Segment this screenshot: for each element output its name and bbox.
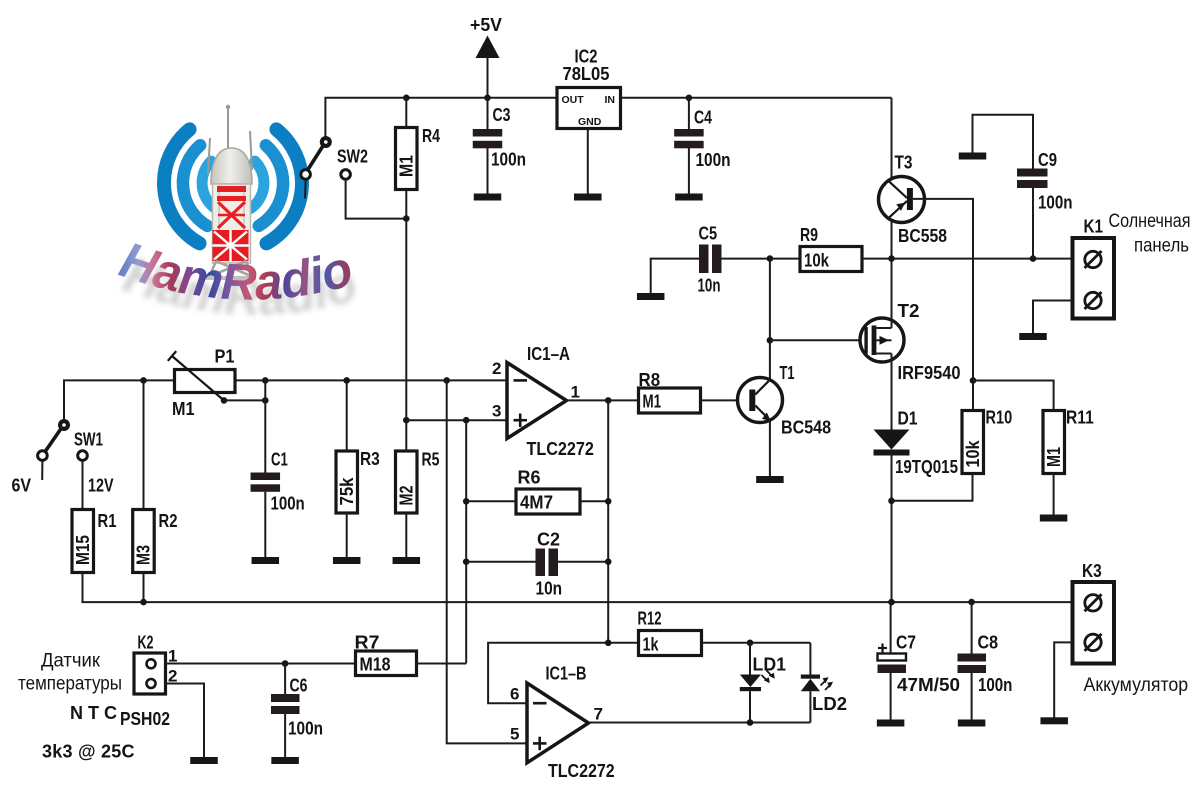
transistor T1 BC548 <box>738 378 783 423</box>
+5V supply symbol <box>476 36 500 59</box>
capacitor C7 electrolytic <box>890 602 892 654</box>
svg-text:T1: T1 <box>780 363 795 383</box>
svg-text:PSH02: PSH02 <box>120 709 170 729</box>
svg-text:SW2: SW2 <box>337 147 368 167</box>
wire K1 pin2 to ground <box>1033 301 1073 334</box>
svg-text:M2: M2 <box>396 486 416 506</box>
wire output vertical <box>607 400 609 642</box>
svg-text:OUT: OUT <box>562 94 585 106</box>
wire K2 pin1 line to R7 <box>166 663 356 665</box>
node C4 top <box>686 95 693 102</box>
svg-text:GND: GND <box>578 116 602 128</box>
node R3 top <box>343 377 350 384</box>
wire R6 leads <box>466 500 516 502</box>
wire R7 right to pin3 vertical <box>417 663 467 665</box>
svg-text:100n: 100n <box>288 719 323 739</box>
svg-text:TLC2272: TLC2272 <box>548 761 615 781</box>
svg-text:+5V: +5V <box>470 15 502 35</box>
svg-text:1: 1 <box>571 383 580 402</box>
wire pin3 line <box>406 419 507 421</box>
wire R5 leads <box>405 420 407 451</box>
svg-text:M15: M15 <box>73 535 93 565</box>
svg-text:IN: IN <box>605 94 616 106</box>
svg-text:C8: C8 <box>978 633 999 653</box>
ground C3 <box>474 194 502 201</box>
terminal block K1 <box>1073 238 1115 319</box>
resistor R9 <box>800 247 862 272</box>
svg-text:R12: R12 <box>638 609 662 629</box>
svg-text:Датчик: Датчик <box>41 651 101 672</box>
svg-text:C2: C2 <box>537 530 560 550</box>
resistor R8 <box>639 388 701 413</box>
wire SW1 to R1 <box>82 461 84 510</box>
svg-text:K1: K1 <box>1084 217 1104 237</box>
resistor R12 <box>639 631 702 656</box>
node R4 bottom <box>403 215 410 222</box>
svg-text:Аккумулятор: Аккумулятор <box>1084 675 1189 696</box>
svg-text:R7: R7 <box>355 633 380 653</box>
node T3 T2 junction <box>888 255 895 262</box>
wire R9 right to K1 <box>862 258 1073 260</box>
wire R4 leads and long vertical <box>405 98 407 128</box>
svg-text:C6: C6 <box>290 676 308 696</box>
node C9 bottom <box>1030 255 1037 262</box>
ground C5 <box>637 293 665 300</box>
wire R2 drop <box>143 380 145 509</box>
logo tower dome <box>211 148 252 184</box>
svg-text:100n: 100n <box>271 494 305 514</box>
svg-text:M18: M18 <box>360 655 391 675</box>
svg-text:6V: 6V <box>12 476 32 496</box>
node LD1 top <box>747 640 754 647</box>
resistor R5 <box>396 451 418 513</box>
wire R8 right <box>701 399 738 401</box>
resistor R10 <box>962 411 984 474</box>
svg-text:K3: K3 <box>1082 561 1102 581</box>
svg-text:1k: 1k <box>643 635 660 655</box>
capacitor C6 <box>284 664 286 695</box>
svg-text:R1: R1 <box>98 511 117 531</box>
svg-text:Солнечная: Солнечная <box>1109 211 1191 232</box>
svg-text:R11: R11 <box>1066 408 1094 428</box>
wire T1 collector vertical <box>769 259 771 380</box>
wire D1 cathode down to rail <box>891 456 893 603</box>
wire R10 R11 top link <box>973 381 1054 411</box>
svg-text:IC1–B: IC1–B <box>546 664 587 684</box>
resistor R11 <box>1043 411 1065 474</box>
resistor R3 <box>336 451 358 513</box>
wire T2 gate line <box>770 339 865 341</box>
wire T2 leads <box>891 320 893 328</box>
op-amp IC1-A <box>507 363 567 439</box>
wire R11 bottom <box>1053 474 1055 515</box>
svg-text:R5: R5 <box>422 450 440 470</box>
wire R3 bottom <box>346 513 348 558</box>
capacitor C4 <box>688 98 690 130</box>
node C8 rail <box>968 599 975 606</box>
wire SW2 to R4 bottom <box>346 180 407 219</box>
svg-text:2: 2 <box>492 359 501 378</box>
svg-text:C1: C1 <box>271 450 288 470</box>
diode D1 19TQ015 <box>874 430 910 450</box>
wire pin3 node vertical <box>465 420 467 663</box>
wire pin7 output line <box>589 722 811 724</box>
ground C7 <box>877 720 905 727</box>
svg-text:R9: R9 <box>800 225 818 245</box>
svg-text:10k: 10k <box>963 440 983 468</box>
terminal block K3 <box>1073 582 1115 664</box>
ground C9 link <box>959 153 987 160</box>
wire main mid line <box>64 380 507 420</box>
svg-text:C3: C3 <box>493 105 511 125</box>
wire T3 collector down to T2 <box>891 220 893 320</box>
svg-text:NTC: NTC <box>70 703 117 723</box>
svg-text:R3: R3 <box>360 449 380 469</box>
LED LD1 <box>749 643 751 675</box>
HamRadio logo <box>114 105 363 326</box>
svg-text:M3: M3 <box>134 545 154 565</box>
svg-text:температуры: температуры <box>18 674 122 695</box>
wire P1 wiper link <box>224 399 265 401</box>
wire R12 right to LD2 <box>702 642 811 644</box>
LED LD2 <box>809 643 811 675</box>
capacitor C8 <box>971 602 973 654</box>
node LD1 bottom <box>747 719 754 726</box>
ground T1 <box>756 476 784 483</box>
wire R10 top lead <box>972 381 974 411</box>
wire C9 top link to ground <box>973 115 1034 169</box>
ground R3 <box>333 557 361 564</box>
ground R5 <box>393 557 421 564</box>
node pin3 branch <box>463 417 470 424</box>
svg-text:3: 3 <box>492 402 501 421</box>
logo radio waves right <box>248 128 307 246</box>
wire C5 left to ground <box>651 259 699 294</box>
switch SW1 <box>58 419 70 431</box>
svg-text:R2: R2 <box>159 511 178 531</box>
svg-text:R8: R8 <box>639 370 661 390</box>
node R10 top <box>970 377 977 384</box>
node T1 collector top <box>767 255 774 262</box>
node output <box>605 397 612 404</box>
ground C8 <box>958 720 986 727</box>
transistor T3 BC558 <box>879 177 925 223</box>
svg-text:C7: C7 <box>896 633 916 653</box>
wire C5 to R9 <box>722 258 801 260</box>
resistor R1 <box>72 510 94 573</box>
svg-text:M1: M1 <box>396 155 416 177</box>
ground C1 <box>252 557 279 564</box>
node R6 left <box>463 498 470 505</box>
node C2 left <box>463 558 470 565</box>
logo tower red lattice box <box>213 230 249 261</box>
wire top rail right <box>621 97 892 99</box>
resistor R6 <box>516 489 580 514</box>
svg-text:R6: R6 <box>518 468 541 488</box>
logo tower mid section <box>213 184 251 263</box>
wire pin1 output <box>567 399 639 401</box>
wire rail down to T3 <box>891 98 893 179</box>
svg-text:19TQ015: 19TQ015 <box>895 457 958 477</box>
op-amp IC1-B <box>527 683 589 763</box>
wire IC2 GND lead <box>587 129 589 195</box>
svg-text:10n: 10n <box>698 276 721 296</box>
wire C9 bottom <box>1032 188 1034 259</box>
wire top rail left <box>325 98 557 137</box>
svg-text:12V: 12V <box>88 476 114 496</box>
svg-text:R10: R10 <box>986 408 1013 428</box>
wire T3 base to R10 node <box>913 199 973 381</box>
svg-text:100n: 100n <box>491 150 526 170</box>
wire K3 pin2 to ground <box>1054 642 1072 717</box>
node D1 R10 <box>888 498 895 505</box>
resistor R7 <box>356 651 417 676</box>
wire T1 emitter to ground <box>769 420 771 476</box>
svg-text:T3: T3 <box>895 153 913 173</box>
wire C1 vertical <box>264 380 266 473</box>
capacitor C5 <box>699 245 709 274</box>
ground K3 <box>1040 717 1068 724</box>
node C6 top <box>282 660 289 667</box>
connector K2 PSH02 <box>134 653 166 694</box>
wire IC1-B pin6 loop to R12 line <box>488 643 638 703</box>
svg-text:R4: R4 <box>422 126 440 146</box>
wire C2 leads <box>466 561 535 563</box>
wire R1 bottom + long rail <box>83 573 1073 603</box>
capacitor C2 <box>536 549 546 577</box>
svg-text:10n: 10n <box>536 579 563 599</box>
switch SW2 <box>320 136 332 148</box>
svg-text:M1: M1 <box>1044 447 1064 467</box>
node output R12 <box>605 640 612 647</box>
svg-text:TLC2272: TLC2272 <box>527 439 594 459</box>
svg-text:100n: 100n <box>696 150 731 170</box>
svg-text:100n: 100n <box>978 675 1012 695</box>
svg-text:LD2: LD2 <box>812 694 847 714</box>
svg-text:75k: 75k <box>337 477 357 506</box>
svg-text:BC548: BC548 <box>781 418 831 438</box>
ground IC2 <box>574 194 602 201</box>
svg-text:M1: M1 <box>172 399 195 419</box>
transistor T2 IRF9540 <box>860 318 904 362</box>
node R2 top <box>140 377 147 384</box>
resistor R2 <box>133 510 155 573</box>
svg-text:3k3 @ 25C: 3k3 @ 25C <box>42 742 135 762</box>
node R2 bottom rail <box>140 599 147 606</box>
svg-text:C9: C9 <box>1038 150 1057 170</box>
logo tower legs <box>209 261 253 278</box>
capacitor C3 <box>487 98 489 130</box>
svg-text:47M/50: 47M/50 <box>897 675 960 695</box>
potentiometer P1 <box>175 370 236 393</box>
ground K2 pin2 <box>190 757 218 764</box>
wire R10 bottom link <box>892 474 973 501</box>
node pin2 feed <box>443 377 450 384</box>
node R4 top <box>403 95 410 102</box>
node D1 rail <box>888 599 895 606</box>
wire R2 bottom <box>143 573 145 603</box>
node T2 gate branch <box>767 337 774 344</box>
node R6 right <box>605 498 612 505</box>
svg-text:T2: T2 <box>898 301 920 321</box>
svg-text:4M7: 4M7 <box>520 493 553 513</box>
wire K2 pin2 to ground <box>166 684 205 758</box>
node R5 top <box>403 417 410 424</box>
capacitor C1 <box>251 473 280 481</box>
svg-text:IRF9540: IRF9540 <box>898 363 961 383</box>
capacitor C9 <box>1017 169 1048 177</box>
node C3 top <box>484 95 491 102</box>
wire pin2 feed vertical down to IC1-B pin5 <box>447 380 527 743</box>
ground R11 <box>1040 515 1068 522</box>
node P1 wiper <box>221 397 228 404</box>
logo radio waves left <box>159 128 218 246</box>
svg-text:D1: D1 <box>898 409 918 429</box>
wire R3 drop <box>346 380 348 451</box>
resistor R4 <box>396 128 418 190</box>
svg-text:IC1–A: IC1–A <box>527 344 570 364</box>
svg-text:100n: 100n <box>1038 193 1073 213</box>
ground C4 <box>675 194 703 201</box>
svg-text:K2: K2 <box>138 633 154 653</box>
svg-text:6: 6 <box>510 685 519 704</box>
svg-text:C5: C5 <box>699 224 718 244</box>
node C2 right <box>605 558 612 565</box>
voltage regulator IC2 78L05 <box>557 88 621 129</box>
svg-text:78L05: 78L05 <box>563 64 610 84</box>
svg-text:10k: 10k <box>804 251 830 271</box>
logo tower mast <box>208 107 252 174</box>
svg-text:7: 7 <box>594 705 603 724</box>
svg-text:SW1: SW1 <box>74 430 103 450</box>
node wiper C1 <box>262 397 269 404</box>
ground K1 <box>1019 333 1047 340</box>
svg-text:5: 5 <box>510 725 519 744</box>
svg-text:M1: M1 <box>643 392 662 412</box>
svg-text:P1: P1 <box>215 347 235 367</box>
node C1 top <box>262 377 269 384</box>
svg-text:BC558: BC558 <box>898 226 947 246</box>
ground C6 <box>271 757 299 764</box>
svg-text:C4: C4 <box>694 108 712 128</box>
svg-text:панель: панель <box>1134 236 1189 257</box>
svg-text:LD1: LD1 <box>753 655 787 675</box>
